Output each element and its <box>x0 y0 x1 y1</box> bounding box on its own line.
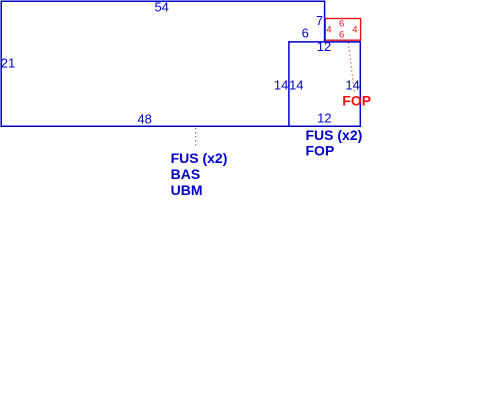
svg-text:FOP: FOP <box>306 143 335 159</box>
svg-text:6: 6 <box>302 26 309 41</box>
svg-text:BAS: BAS <box>171 166 201 182</box>
svg-text:FOP: FOP <box>342 93 371 109</box>
svg-text:14: 14 <box>345 78 359 93</box>
outer outline top edge <box>1 0 326 2</box>
svg-text:6: 6 <box>339 29 344 40</box>
inner rectangle top edge <box>288 41 361 43</box>
inner rectangle right edge <box>359 41 361 126</box>
svg-text:21: 21 <box>1 55 15 70</box>
outer outline right edge (partial, down to inner rect top) <box>324 1 326 43</box>
outer outline left edge <box>0 1 2 127</box>
inner rectangle left edge <box>288 41 290 126</box>
svg-text:48: 48 <box>137 111 151 126</box>
svg-text:4: 4 <box>352 24 357 35</box>
svg-text:12: 12 <box>317 111 331 126</box>
svg-text:6: 6 <box>339 18 344 29</box>
outer outline bottom edge (shared with inner rectangle bottom) <box>1 125 361 127</box>
svg-text:7: 7 <box>316 13 323 28</box>
svg-text:4: 4 <box>326 24 331 35</box>
svg-text:14: 14 <box>274 78 288 93</box>
svg-text:UBM: UBM <box>171 182 203 198</box>
red inner box (FOP region) <box>325 19 360 41</box>
svg-text:FUS (x2): FUS (x2) <box>171 150 228 166</box>
dashed leader line to FUS/BAS/UBM labels <box>195 128 197 148</box>
svg-text:14: 14 <box>289 78 303 93</box>
dotted red leader line to FOP label <box>348 43 354 93</box>
svg-text:12: 12 <box>317 39 331 54</box>
svg-text:FUS (x2): FUS (x2) <box>306 127 363 143</box>
svg-text:54: 54 <box>154 0 168 14</box>
